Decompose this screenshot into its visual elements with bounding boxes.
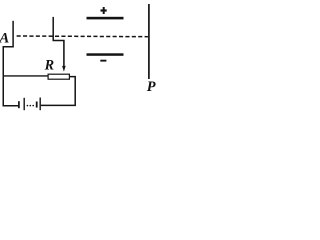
resistor R box bbox=[48, 74, 69, 79]
left wall wire down to bottom bbox=[3, 76, 18, 106]
beam path dashed line bbox=[17, 35, 148, 38]
battery cell 1 long plate bbox=[23, 98, 25, 110]
svg-text:P: P bbox=[147, 79, 156, 95]
svg-text:R: R bbox=[44, 58, 54, 74]
capacitor top plate bbox=[87, 17, 124, 20]
minus sign label bbox=[100, 60, 106, 62]
wire from anode to slider arrow bbox=[53, 41, 64, 67]
wire from left wall to resistor bbox=[3, 75, 48, 77]
bottom wire from battery to right corner and up to resistor bbox=[41, 77, 75, 106]
rheostat slider arrowhead bbox=[62, 66, 66, 72]
battery dots bbox=[27, 105, 29, 107]
battery cell 2 short plate bbox=[36, 102, 38, 108]
anode plate (right gun plate) bbox=[52, 17, 54, 40]
plus sign label bbox=[101, 9, 107, 11]
screen plate P bbox=[148, 4, 150, 79]
capacitor bottom plate bbox=[87, 53, 124, 56]
svg-text:A: A bbox=[0, 30, 9, 46]
battery cell 1 short plate bbox=[18, 101, 20, 108]
battery cell 2 long plate bbox=[39, 98, 41, 111]
electrode A (left cathode plate) bbox=[12, 21, 14, 46]
wire from electrode A down to left wall bbox=[3, 47, 14, 76]
